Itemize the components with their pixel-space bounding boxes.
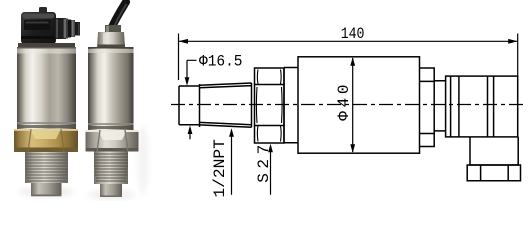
dim Φ16.5 lower arrow line (189, 128, 191, 139)
photo background (0, 0, 170, 201)
label 1/2NPT leader (231, 131, 233, 195)
sensor1 hex nut (brass) (14, 129, 78, 152)
arrowhead 140 left (179, 39, 189, 44)
washer collar (284, 68, 298, 143)
connector block internal lines (451, 76, 494, 137)
svg-text:Φ40: Φ40 (335, 84, 353, 120)
sensor1 DIN connector block (21, 12, 56, 44)
arrowhead 1/2NPT (229, 128, 234, 137)
arrowhead Φ40 bottom (350, 144, 355, 153)
connector cable gland (470, 137, 518, 165)
sensor1 body cylinder (17, 47, 76, 130)
dim Φ40 line (352, 58, 354, 152)
DIN connector block (446, 76, 518, 137)
arrowhead Φ40 top (350, 57, 355, 66)
dim 140 extension lines (179, 34, 518, 81)
sensor1 DIN connector screw (39, 7, 47, 14)
sensor1 threaded stem (25, 152, 68, 183)
main body Φ40 outline (298, 57, 420, 153)
soft shadow under sensors (18, 125, 148, 200)
label S27 leader (270, 146, 272, 195)
sensor1 neck shadow band (18, 43, 75, 48)
centerline (171, 104, 526, 106)
arrowhead 140 right (508, 39, 518, 44)
dim Φ16.5 leader (187, 60, 197, 83)
hex S27 face lines (255, 85, 285, 126)
hex nut S27 outline (255, 68, 285, 143)
thread 1/2NPT tapered profile (200, 83, 252, 127)
hex S27 chamfer arcs (256, 70, 282, 142)
svg-text:140: 140 (341, 25, 365, 43)
connector neck (434, 81, 445, 131)
sensor1 tip (31, 183, 62, 196)
sensor2 cable gland fitting (97, 25, 125, 47)
sensor2 cable highlight (111, 4, 127, 35)
dim 140 line (179, 40, 518, 42)
sensor2 cable (108, 2, 126, 36)
sensor2 threaded stem (94, 152, 128, 185)
pressure port Φ16.5 outline (179, 86, 200, 125)
sensor2 body cylinder (88, 47, 134, 130)
thread start vertical (199, 84, 201, 127)
arrowhead S27 (268, 144, 273, 153)
arrowhead Φ16.5 bottom (188, 126, 193, 135)
sensor2 hex nut (86, 130, 139, 152)
sensor1 connector cable-gland stub (55, 18, 80, 39)
gland nut (467, 165, 520, 181)
svg-text:Φ16.5: Φ16.5 (199, 52, 243, 70)
rear hex collar (420, 68, 435, 147)
sensor2 tip (100, 184, 122, 197)
svg-text:S27: S27 (255, 145, 273, 183)
arrowhead Φ16.5 top (185, 77, 190, 86)
svg-text:1/2NPT: 1/2NPT (211, 139, 229, 198)
